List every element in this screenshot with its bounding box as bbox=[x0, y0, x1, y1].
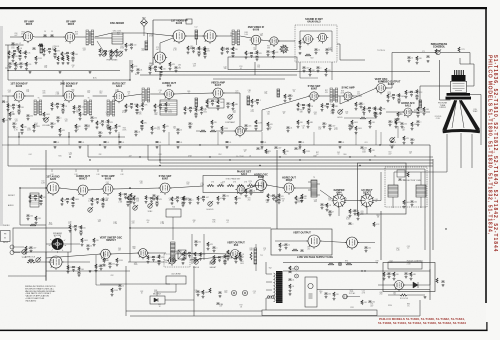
wire top return bus 2 bbox=[140, 74, 297, 76]
ground under CS2 bbox=[189, 110, 192, 113]
wire stage drop 6 bbox=[261, 132, 263, 145]
resistor RY1 bbox=[355, 102, 357, 107]
junction mixer grid bbox=[172, 35, 173, 36]
ground under RMB12 bbox=[267, 127, 270, 130]
wire to V31 bbox=[35, 261, 50, 263]
vert output transformer box bbox=[178, 250, 186, 259]
capacitor C bus6 bbox=[177, 142, 180, 143]
capacitor C31 bbox=[315, 49, 318, 50]
ground under RH1 bbox=[221, 52, 224, 55]
ground under CSA3 bbox=[80, 233, 83, 236]
hum balance pot bbox=[36, 257, 41, 262]
capacitor CSD3 bbox=[317, 67, 320, 68]
wire inside sound module top bbox=[300, 30, 332, 32]
capacitor CCX9 bbox=[275, 197, 278, 198]
capacitor CCI3 bbox=[278, 199, 281, 200]
wire damper cathode down bbox=[338, 207, 340, 217]
resistor RBL1 bbox=[103, 258, 105, 263]
ground under CMB3 bbox=[51, 125, 54, 128]
wire yoke outer loop bbox=[358, 163, 407, 214]
wire funnel center down bbox=[460, 133, 462, 168]
wire B+ bus 1 bbox=[8, 144, 430, 146]
wire stage drop 8 bbox=[355, 132, 357, 145]
ground under RUM1 bbox=[131, 69, 134, 72]
ground under RSA1 bbox=[69, 230, 72, 233]
capacitor C bus3 bbox=[104, 142, 107, 143]
ground under CMB1 bbox=[13, 125, 16, 128]
ground under CYK2 bbox=[411, 203, 414, 206]
ground under RCB1 bbox=[61, 203, 64, 206]
wire AGC out bbox=[190, 256, 230, 260]
wire T9 to damper bbox=[320, 190, 334, 200]
wire to bottom section bbox=[20, 224, 46, 226]
wire stage drop 9 bbox=[380, 132, 382, 145]
wire bus corner up bbox=[129, 60, 131, 80]
ground under CAC1 bbox=[417, 115, 420, 118]
resistor RBS6 bbox=[303, 149, 305, 154]
ground under CCX9 bbox=[275, 199, 278, 202]
resistor RAA1 bbox=[387, 94, 389, 99]
wire bottom left bbox=[8, 275, 46, 277]
vert hold control bbox=[194, 259, 199, 264]
resistor audio bottom bbox=[30, 224, 36, 226]
wire V14 plate out bbox=[223, 92, 240, 94]
filter can 2 bbox=[295, 274, 299, 278]
ground under CLB5 bbox=[141, 128, 144, 131]
resistor RW3 bbox=[308, 103, 310, 107]
wire T1 to tuner box bbox=[95, 33, 112, 37]
junction bus2-1 bbox=[69, 156, 70, 157]
capacitor C4 coupling bbox=[44, 35, 47, 36]
box phono input panel bbox=[1, 231, 11, 242]
capacitor CVQ2 bbox=[285, 244, 288, 245]
resistor RVB1 bbox=[284, 94, 286, 99]
ground under RA25 bbox=[35, 61, 38, 64]
wire T10 down bbox=[172, 217, 174, 240]
transformer T7 ratio det bbox=[107, 100, 115, 116]
tube V2 RF amplifier 2 bbox=[64, 32, 77, 43]
capacitor CRM7 bbox=[411, 139, 414, 140]
resistor RMB6 bbox=[115, 124, 117, 129]
ground under RZ4 bbox=[379, 112, 382, 115]
ground under RLL2 bbox=[35, 221, 38, 224]
ground under RPS5 bbox=[333, 297, 336, 300]
ground under CVP3 bbox=[194, 260, 197, 263]
wire to vert osc bbox=[340, 88, 377, 104]
capacitor CL3 bbox=[18, 110, 21, 111]
wire B+ bus 4 bbox=[160, 162, 433, 164]
ground under CCF3 bbox=[182, 204, 185, 207]
tube V12 ratio detector bbox=[112, 92, 125, 104]
capacitor CBL2 bbox=[109, 263, 112, 264]
resistor RD1 bbox=[99, 48, 101, 53]
resistor RLL2 bbox=[35, 216, 37, 221]
wire phono 1 bbox=[14, 246, 24, 248]
capacitor CU1 bbox=[227, 103, 230, 104]
capacitor CX3 bbox=[332, 109, 335, 110]
ground bus5 bbox=[156, 146, 159, 149]
resistor RCK2 bbox=[326, 203, 328, 208]
resistor RZ1 bbox=[363, 106, 365, 111]
wire heater bus bbox=[30, 168, 425, 170]
ground under CU1 bbox=[227, 105, 230, 108]
capacitor C71 bbox=[427, 56, 430, 57]
ground under CVQ3 bbox=[365, 249, 368, 252]
ground bus2 bbox=[79, 146, 82, 149]
wire bus up to V6 bbox=[254, 62, 256, 75]
junction bus4 a bbox=[159, 165, 160, 166]
wire yoke to right bbox=[470, 94, 481, 96]
wire BL bus bbox=[96, 284, 120, 286]
capacitor CA3 bbox=[19, 56, 22, 57]
junction IF gnd 2 bbox=[68, 136, 69, 137]
wire drop V10 bbox=[18, 132, 20, 137]
ground under CUM4 bbox=[175, 69, 178, 72]
resistor RL1 bbox=[7, 103, 9, 108]
capacitor CMB5 bbox=[99, 132, 102, 133]
wire vert vertical a bbox=[191, 234, 193, 264]
ground under CCX5 bbox=[189, 201, 192, 204]
junction AGC bus bbox=[129, 79, 130, 80]
tube socket video det bbox=[279, 45, 288, 54]
resistor RLB9 bbox=[255, 120, 257, 124]
border bottom rule bbox=[0, 330, 488, 332]
capacitor CRM3 bbox=[401, 123, 404, 124]
electrolytic capacitor C95 bbox=[231, 290, 236, 295]
wire sound box drop 2 bbox=[331, 62, 333, 80]
ground under CCJ2 bbox=[300, 200, 303, 203]
resistor RVPy bbox=[239, 252, 241, 257]
ground under CCX1 bbox=[127, 204, 130, 207]
capacitor CG9 bbox=[204, 54, 207, 55]
ground under CAB3 bbox=[416, 97, 419, 100]
wire coil top bbox=[255, 244, 257, 248]
capacitor CPS1 bbox=[289, 272, 292, 273]
resistor R121 bbox=[400, 294, 407, 296]
ground under RY1 bbox=[355, 107, 358, 110]
ground under RCH1 bbox=[245, 194, 248, 197]
ground under CQ3 bbox=[136, 111, 139, 114]
resistor in vert box bbox=[292, 249, 298, 251]
wire chain to V15 bbox=[216, 130, 236, 132]
wire heater drop 2 bbox=[75, 169, 77, 172]
resistor R70 bbox=[435, 49, 437, 54]
tube V5 2nd video IF bbox=[202, 30, 217, 44]
capacitor C80 bbox=[182, 259, 185, 260]
ground under CH3 bbox=[232, 54, 235, 57]
capacitor CVPx bbox=[227, 256, 230, 257]
tube V19 audio output bbox=[76, 185, 89, 197]
ground under CW2 bbox=[302, 107, 305, 110]
ground under CCK1 bbox=[321, 206, 324, 209]
ground under RYK1 bbox=[403, 205, 406, 208]
ground under RD4 bbox=[115, 54, 118, 57]
resistor RMB10 bbox=[221, 126, 223, 131]
wire heater drop 1 bbox=[51, 169, 53, 172]
capacitor CCK1 bbox=[321, 204, 324, 205]
resistor R95 bbox=[209, 288, 211, 293]
resistor RBB1 bbox=[95, 264, 97, 269]
wire center vertical bbox=[276, 150, 278, 229]
wire B+ bus 2 bbox=[88, 156, 433, 158]
junction bus4 b bbox=[259, 165, 260, 166]
tube V20 sync amp bbox=[101, 184, 114, 196]
yoke winding horizontal bbox=[388, 185, 398, 197]
horizontal drive control bbox=[390, 137, 395, 142]
capacitor CW3 bbox=[308, 109, 311, 110]
coil L26 peaking bbox=[277, 89, 280, 97]
resistor RLB12 bbox=[369, 120, 371, 125]
wire CRT grid drop bbox=[419, 86, 421, 104]
ground under RCG1 bbox=[197, 201, 200, 204]
ground under RKB1 bbox=[213, 261, 216, 264]
resistor RS1 bbox=[184, 107, 186, 112]
ground under CJ2 bbox=[250, 55, 253, 58]
electron gun line 2 bbox=[460, 100, 465, 128]
resistor ladder 1 bbox=[57, 56, 59, 61]
ground under CVL4 bbox=[195, 243, 198, 246]
resistor RR1 bbox=[154, 104, 156, 109]
resistor RMB16 bbox=[351, 120, 353, 125]
ground under RS1 bbox=[184, 112, 187, 115]
wire vert vertical b bbox=[203, 234, 205, 260]
wire left vertical lower bbox=[45, 252, 47, 281]
capacitor CP3 bbox=[107, 125, 110, 126]
ground under CCG2 bbox=[202, 199, 205, 202]
ground at brightness bbox=[427, 60, 430, 63]
capacitor CCE2 bbox=[150, 198, 153, 199]
capacitor CC2 bbox=[66, 52, 69, 53]
stray junction dot bbox=[445, 228, 446, 229]
resistor RCC1 bbox=[91, 198, 93, 203]
wire HV rect down bbox=[366, 207, 368, 215]
resistor RPS1 bbox=[289, 266, 291, 270]
ground under RCX4 bbox=[183, 201, 186, 204]
wire RM8 out bbox=[366, 117, 376, 119]
capacitor CR3 bbox=[165, 108, 168, 109]
ground under CVL2 bbox=[87, 247, 90, 250]
resistor RT1 bbox=[206, 100, 208, 105]
resistor RQ1 bbox=[125, 104, 127, 109]
junction supply 2 bbox=[364, 270, 365, 271]
capacitor CW2 bbox=[302, 105, 305, 106]
ground under CRM7 bbox=[411, 141, 414, 144]
electron gun line 1 bbox=[452, 100, 457, 128]
wire damper to HV rect bbox=[344, 200, 362, 202]
resistor RB1 bbox=[43, 48, 45, 53]
ground under RP1 bbox=[96, 126, 99, 129]
wire focus amp out bbox=[404, 284, 414, 286]
wire bus 2 riser bbox=[87, 145, 89, 157]
tube V10 1st sound IF bbox=[12, 91, 25, 103]
ground under RX1 bbox=[321, 109, 324, 112]
resistor RMB8 bbox=[151, 126, 153, 131]
resistor RG4 bbox=[204, 46, 206, 51]
ground under RFB2 bbox=[410, 277, 413, 280]
capacitor CRM1 bbox=[389, 121, 392, 122]
coil L22 peaking bbox=[195, 98, 198, 107]
capacitor CE2 bbox=[130, 44, 133, 45]
wire speaker socket right bbox=[64, 243, 81, 245]
wire bottom-left vertical bbox=[67, 252, 69, 272]
ground under RD1 bbox=[99, 54, 102, 57]
resistor RMB12 bbox=[267, 122, 269, 127]
ground under RRM2 bbox=[395, 125, 398, 128]
junction bus2-3 bbox=[209, 156, 210, 157]
capacitor CSA2 bbox=[74, 226, 77, 227]
capacitor CDT2 bbox=[27, 115, 30, 116]
box focus coil bbox=[388, 262, 422, 269]
ground under RJ1 bbox=[245, 56, 248, 59]
tube V11 2nd sound IF bbox=[62, 91, 75, 103]
wire B+ bus 5 bbox=[8, 165, 433, 167]
resistor RA22 bbox=[15, 62, 17, 67]
wire T1 to fine tuning bbox=[97, 41, 104, 52]
wire stage drop 3 bbox=[118, 132, 120, 145]
antenna symbol bbox=[141, 19, 148, 31]
ground under RCL1 bbox=[349, 214, 352, 217]
wire V18 to V19 bbox=[59, 188, 78, 190]
wire RM drop 1 bbox=[375, 130, 377, 145]
resistor RCX10 bbox=[301, 194, 303, 199]
ground bus4 bbox=[119, 146, 122, 149]
wire yoke top 2 bbox=[420, 172, 422, 185]
capacitor CPS4 bbox=[325, 293, 328, 294]
ground under RCX8 bbox=[235, 201, 238, 204]
wire to tube base bbox=[440, 99, 451, 101]
yoke winding vertical bbox=[416, 185, 426, 197]
capacitor CCF2 bbox=[176, 197, 179, 198]
ground under CCX7 bbox=[223, 197, 226, 200]
wire CRT HV feed bbox=[460, 58, 474, 86]
capacitor CKB2 bbox=[218, 257, 221, 258]
ground under CLL1 bbox=[27, 217, 30, 220]
wire margin stub 2 bbox=[2, 144, 8, 146]
tube V17 vertical oscillator bbox=[375, 84, 387, 95]
wire RF input bbox=[10, 36, 24, 38]
ground under CA23 bbox=[20, 65, 23, 68]
picture tube funnel right wall bbox=[459, 100, 480, 131]
resistor RCX8 bbox=[235, 196, 237, 201]
ground under RT1 bbox=[206, 105, 209, 108]
wire to V4 grid bbox=[145, 33, 173, 36]
wire box to L8 bbox=[123, 32, 146, 34]
tube V24 horizontal output bbox=[282, 183, 295, 195]
ground under CG9 bbox=[204, 56, 207, 59]
junction bus3-2 bbox=[159, 159, 160, 160]
capacitor CLB9 bbox=[255, 126, 258, 127]
ground under CL2 bbox=[12, 107, 15, 110]
resistor RAA3 bbox=[398, 93, 400, 97]
ground under RVO1 bbox=[147, 261, 150, 264]
ground under CX2 bbox=[326, 106, 329, 109]
wire vertical x194 bbox=[193, 266, 195, 316]
wire bottom long bus bbox=[130, 315, 420, 317]
svg-text:PHILCO MODELS 51-T1800, 51-T18: PHILCO MODELS 51-T1800, 51-T1830, 51-T18… bbox=[486, 55, 492, 235]
resistor RH1 bbox=[221, 47, 223, 52]
power transformer leads bbox=[266, 274, 272, 298]
capacitor CBA3 bbox=[78, 272, 81, 273]
ground under RMB14 bbox=[307, 125, 310, 128]
wire long vertical left-mid bbox=[45, 150, 47, 280]
capacitor CL2 bbox=[12, 104, 15, 105]
resistor ladder 3 bbox=[67, 56, 69, 61]
wire R121 right bbox=[407, 294, 425, 296]
capacitor CC3 bbox=[72, 57, 75, 58]
ground under CDT6 bbox=[91, 119, 94, 122]
resistor RD3 bbox=[110, 49, 112, 53]
capacitor CDH5 bbox=[349, 223, 352, 224]
resistor RA1 bbox=[8, 51, 10, 56]
tube V14 video amplifier bbox=[211, 88, 224, 100]
power transformer primary winding bbox=[274, 273, 276, 302]
resistor RCI3 bbox=[278, 194, 280, 198]
ground under CG2 bbox=[192, 50, 195, 53]
ground under RE1 bbox=[125, 48, 128, 51]
ground under RLB6 bbox=[163, 129, 166, 132]
junction bus2-2 bbox=[139, 156, 140, 157]
resistor RA24 bbox=[26, 62, 28, 67]
ground under CVB2 bbox=[289, 97, 292, 100]
ground under CC2 bbox=[66, 55, 69, 58]
resistor RKB1 bbox=[213, 255, 215, 260]
speaker socket pin ring bbox=[49, 236, 66, 253]
ground under CX3 bbox=[332, 111, 335, 114]
capacitor CTL1 bbox=[12, 43, 15, 44]
transformer T13 sync takeoff bbox=[330, 88, 338, 102]
ground under CB2 bbox=[48, 51, 51, 54]
resistor R50 sync chain bbox=[207, 185, 214, 187]
ground under CA21 bbox=[9, 65, 12, 68]
capacitor CUM4 bbox=[175, 67, 178, 68]
wire yoke bottom 2 bbox=[420, 197, 422, 208]
ground under RVL5 bbox=[207, 247, 210, 250]
resistor vert out bleeder bbox=[250, 252, 252, 260]
coil L3 bbox=[40, 44, 43, 53]
capacitor CA23 bbox=[20, 63, 23, 64]
wire stage drop 5 bbox=[217, 132, 219, 145]
capacitor CCX7 bbox=[223, 195, 226, 196]
ground under RA22 bbox=[14, 67, 17, 70]
capacitor CCE3 bbox=[156, 202, 159, 203]
ground under RBA1 bbox=[67, 271, 70, 274]
ground under CLB11 bbox=[323, 125, 326, 128]
ground under RUM3 bbox=[169, 67, 172, 70]
ground under CCA2 bbox=[34, 198, 37, 201]
ground under CBA2 bbox=[72, 269, 75, 272]
resistor RSA1 bbox=[69, 224, 71, 229]
capacitor CCD3 bbox=[130, 199, 133, 200]
resistor RCH1 bbox=[245, 189, 247, 194]
capacitor C bus7 bbox=[226, 142, 229, 143]
capacitor C96 bbox=[217, 303, 220, 304]
wire left vertical bbox=[7, 45, 9, 80]
capacitor CCA3 bbox=[40, 200, 43, 201]
wire V23 to V24 bbox=[267, 185, 285, 188]
resistor ladder 2 bbox=[62, 56, 64, 61]
box speaker output section bbox=[13, 228, 71, 252]
capacitor CB9 bbox=[40, 45, 43, 46]
capacitor CPS10 bbox=[369, 301, 372, 302]
ground under RCX10 bbox=[301, 199, 304, 202]
resistor R51 sync chain bbox=[217, 185, 224, 187]
ground under RAC2 bbox=[423, 112, 426, 115]
junction IF gnd 3 bbox=[118, 136, 119, 137]
ground under CT3 bbox=[217, 107, 220, 110]
wire V20 to V21 bbox=[113, 188, 160, 189]
ground under CK1 bbox=[267, 53, 270, 56]
resistor RBL3 bbox=[116, 258, 118, 263]
